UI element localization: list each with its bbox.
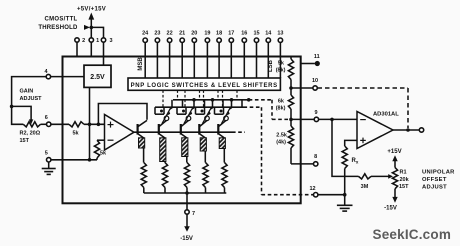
svg-text:20: 20 (191, 30, 197, 36)
resistor 5k (gain) (69, 122, 84, 127)
switch output bus (173, 99, 249, 101)
svg-text:R2, 20Ω: R2, 20Ω (20, 130, 41, 136)
wire wiper loop (12, 106, 32, 121)
resistor (emitter ladder) 5 (222, 163, 227, 188)
svg-text:17: 17 (228, 30, 234, 36)
node (343, 193, 347, 197)
svg-text:5k: 5k (278, 61, 285, 67)
-15V emitter rail (144, 192, 227, 194)
svg-text:ADJUST: ADJUST (20, 96, 43, 102)
-15V arrow (186, 214, 188, 226)
wiper arrow to R1 (371, 175, 389, 177)
transistor Q1 (137, 124, 139, 135)
wire to +input (84, 123, 105, 125)
pin 2 (75, 38, 79, 42)
svg-text:8: 8 (314, 154, 317, 160)
pin 5 (47, 158, 51, 162)
svg-text:2.5V: 2.5V (90, 74, 105, 81)
potentiometer R2 20ohm (23, 122, 40, 127)
svg-text:CMOS/TTL: CMOS/TTL (44, 17, 77, 23)
svg-text:12: 12 (309, 186, 315, 192)
2.5V reference box (84, 65, 111, 87)
svg-text:AD301AL: AD301AL (373, 112, 399, 118)
resistor (emitter ladder) 3 (184, 163, 189, 188)
node (230, 98, 234, 102)
transistor Q3 (180, 124, 182, 135)
wire to R2 (12, 106, 24, 124)
svg-text:15T: 15T (399, 184, 409, 190)
dashed wire bus A to pin 9 node (249, 99, 272, 101)
thin-film emitter resistor 3 (182, 138, 188, 157)
svg-text:3: 3 (109, 38, 112, 44)
svg-text:13: 13 (277, 30, 283, 36)
pin 10 (313, 86, 317, 90)
thin-film emitter resistor 1 (139, 138, 145, 148)
svg-text:(4k): (4k) (276, 140, 286, 146)
pin 12 (314, 193, 318, 197)
thin-film emitter resistor 4 (200, 138, 206, 151)
node: gain adjust junction (10, 105, 14, 109)
wire -input (97, 139, 105, 141)
DAC package outline (63, 57, 301, 204)
pin 9 (314, 117, 318, 121)
threshold pointer arrow (84, 25, 90, 30)
svg-text:(8k): (8k) (276, 106, 286, 112)
svg-text:10: 10 (312, 78, 318, 84)
svg-text:GAIN: GAIN (20, 89, 34, 95)
svg-text:OFFSET: OFFSET (422, 177, 447, 183)
svg-text:21: 21 (179, 30, 185, 36)
node (88, 158, 92, 162)
potentiometer R1 20k (392, 168, 397, 189)
svg-text:6k: 6k (278, 99, 285, 105)
svg-text:24: 24 (142, 30, 149, 36)
wire 2.5V output down to + node and common (89, 87, 91, 159)
pin 4 (46, 74, 50, 78)
PNP switch pair bit 4 (215, 90, 243, 123)
svg-text:15: 15 (253, 30, 259, 36)
PNP logic switches box (128, 78, 280, 90)
svg-text:+5V/+15V: +5V/+15V (77, 7, 106, 13)
resistor Rx (342, 146, 347, 169)
svg-text:5k: 5k (72, 130, 79, 136)
output terminal (419, 128, 423, 132)
resistor 5k (8k) feedback (288, 59, 293, 80)
output wire (393, 129, 419, 131)
pin 1 (89, 38, 93, 42)
pin 6 (47, 122, 51, 126)
wire to -input (319, 118, 357, 120)
thin-film emitter resistor 5 (219, 138, 225, 149)
feedback loop wire (98, 104, 147, 125)
resistor (emitter ladder) 2 (162, 163, 167, 188)
supply arrow up (90, 19, 92, 38)
+15V arrow (394, 159, 396, 168)
PNP switch pair bit 1 (155, 90, 183, 123)
wire pin6 into chip (51, 123, 69, 125)
switch emitter bus (155, 106, 244, 108)
pin 9 wire (291, 118, 314, 120)
node pin10 (289, 86, 293, 90)
pin 8 (314, 162, 318, 166)
svg-text:2: 2 (82, 38, 85, 44)
node output (406, 128, 410, 132)
PNP switch pair bit 3 (196, 90, 224, 123)
ground (48, 162, 50, 168)
svg-text:11: 11 (314, 54, 320, 60)
svg-text:R1: R1 (400, 169, 407, 175)
svg-text:-15V: -15V (180, 236, 193, 242)
svg-text:-15V: -15V (384, 206, 397, 212)
svg-text:14: 14 (265, 30, 272, 36)
svg-text:1: 1 (96, 38, 99, 44)
node (192, 98, 196, 102)
svg-text:SeekIC.com: SeekIC.com (373, 227, 452, 242)
PNP switch pair bit 2 (177, 90, 205, 123)
resistor (emitter ladder) 4 (203, 163, 208, 188)
svg-text:(8k): (8k) (276, 68, 286, 74)
svg-text:9: 9 (314, 110, 317, 116)
svg-text:15T: 15T (20, 138, 30, 144)
wiper arrow (29, 119, 33, 124)
ground (344, 195, 346, 206)
node: supply junction (90, 26, 94, 30)
svg-text:UNIPOLAR: UNIPOLAR (422, 169, 455, 175)
svg-text:PNP LOGIC SWITCHES & LEVEL SHI: PNP LOGIC SWITCHES & LEVEL SHIFTERS (131, 83, 278, 89)
pin 10 wire (291, 87, 313, 89)
node (185, 191, 189, 195)
svg-text:20k: 20k (400, 177, 410, 183)
node (247, 98, 251, 102)
pin 7 (185, 210, 189, 214)
resistor (emitter ladder) 1 (141, 163, 146, 188)
svg-text:ADJUST: ADJUST (422, 184, 447, 190)
-15V arrow (394, 189, 396, 198)
thin-film emitter resistor 2 (160, 138, 166, 162)
svg-text:THRESHOLD: THRESHOLD (38, 25, 78, 31)
external feedback dashed wire (318, 87, 409, 89)
wire pin12 to ground (318, 194, 345, 196)
transistor Q5 (217, 124, 219, 135)
wire summing junction to 3M (332, 119, 359, 176)
svg-text:7: 7 (192, 211, 195, 217)
pin 11 (315, 61, 320, 66)
node (211, 98, 215, 102)
svg-text:19: 19 (204, 30, 210, 36)
node + input (97, 123, 101, 127)
op-amp AD301AL (357, 112, 393, 149)
svg-text:Rx: Rx (352, 158, 359, 165)
wire to pin 8 (291, 163, 313, 165)
svg-text:23: 23 (154, 30, 160, 36)
op-amp output base bus (134, 131, 232, 133)
resistor 6k (8k) (288, 95, 293, 109)
svg-text:18: 18 (216, 30, 222, 36)
node summing junction (330, 118, 334, 122)
pin 3 (101, 38, 105, 42)
svg-text:6: 6 (45, 115, 48, 121)
wire chain top (290, 57, 292, 60)
svg-text:16: 16 (241, 30, 247, 36)
pin 11 wire (301, 63, 315, 65)
op-amp U1 (reference control) (105, 115, 135, 151)
resistor 2.5k (4k) (288, 126, 293, 148)
transistor Q2 (158, 124, 160, 135)
svg-text:5: 5 (45, 151, 48, 157)
resistor 3M (359, 174, 372, 179)
resistor 5k (offset) (94, 140, 99, 158)
pin 4 wire (12, 77, 84, 107)
wire common rail (51, 159, 97, 161)
svg-text:LSB: LSB (268, 59, 274, 72)
wire jog to pin 3 (91, 27, 103, 37)
dashed wire emitter bus to pin 12 (244, 106, 262, 108)
svg-text:22: 22 (167, 30, 173, 36)
node pin9 (289, 118, 293, 122)
svg-text:3M: 3M (361, 184, 369, 190)
svg-text:2.5k: 2.5k (276, 133, 288, 139)
svg-text:5k: 5k (100, 151, 107, 157)
node (88, 123, 92, 127)
wire +input to Rx (345, 140, 357, 146)
svg-text:MSB: MSB (138, 57, 144, 71)
svg-text:+15V: +15V (387, 149, 401, 155)
transistor Q4 (198, 124, 200, 135)
